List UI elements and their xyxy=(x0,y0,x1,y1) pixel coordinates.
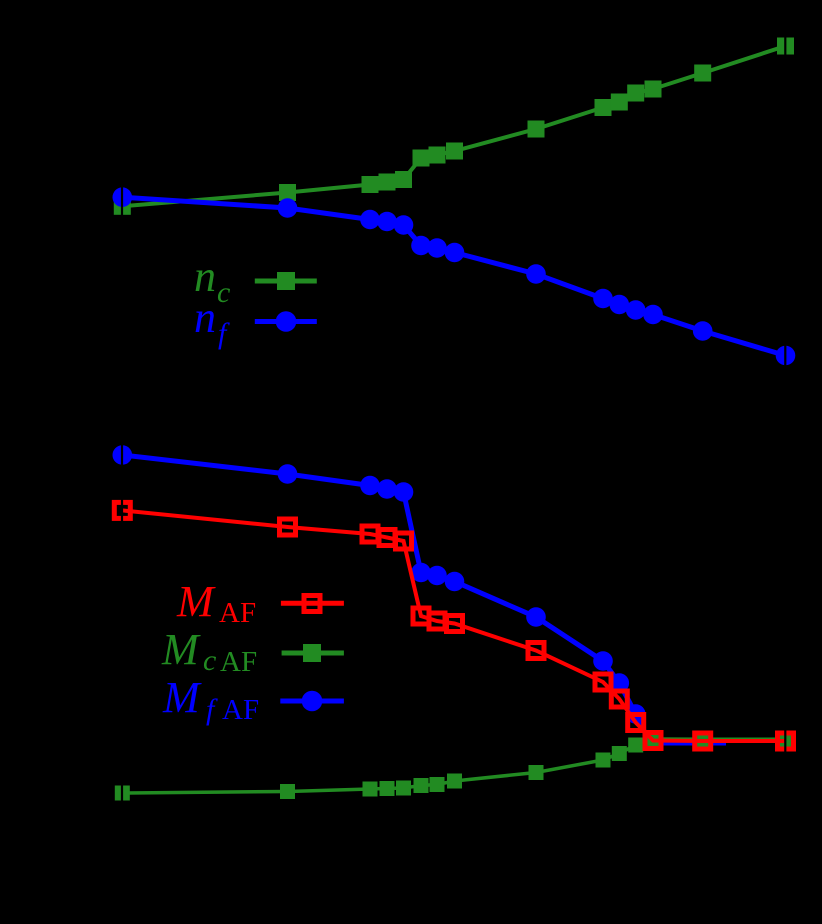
right axis xyxy=(784,0,786,924)
svg-text:n: n xyxy=(194,293,216,342)
svg-text:M: M xyxy=(162,673,202,722)
svg-text:AF: AF xyxy=(219,597,256,629)
n_c markers (green squares) xyxy=(114,198,131,215)
svg-text:M: M xyxy=(176,577,216,626)
svg-text:AF: AF xyxy=(222,694,259,726)
svg-text:AF: AF xyxy=(220,646,257,678)
M_cAF markers (green squares) xyxy=(115,786,130,801)
M_fAF markers (blue circles) xyxy=(113,445,133,465)
left axis (black, cuts edge markers) xyxy=(121,0,123,924)
svg-text:c: c xyxy=(217,276,230,309)
n_f curve (blue line) xyxy=(122,197,785,355)
M_cAF curve (green line) xyxy=(122,739,785,793)
M_AF curve (red line, on top) xyxy=(122,510,785,741)
n_c curve (green line) xyxy=(122,46,785,206)
n_f markers (blue circles) xyxy=(113,187,133,207)
svg-text:M: M xyxy=(161,625,201,674)
M_AF markers (red open squares) xyxy=(114,502,130,518)
svg-text:c: c xyxy=(203,644,216,677)
M_fAF curve (blue line, drawn first/underneath) xyxy=(122,455,726,743)
